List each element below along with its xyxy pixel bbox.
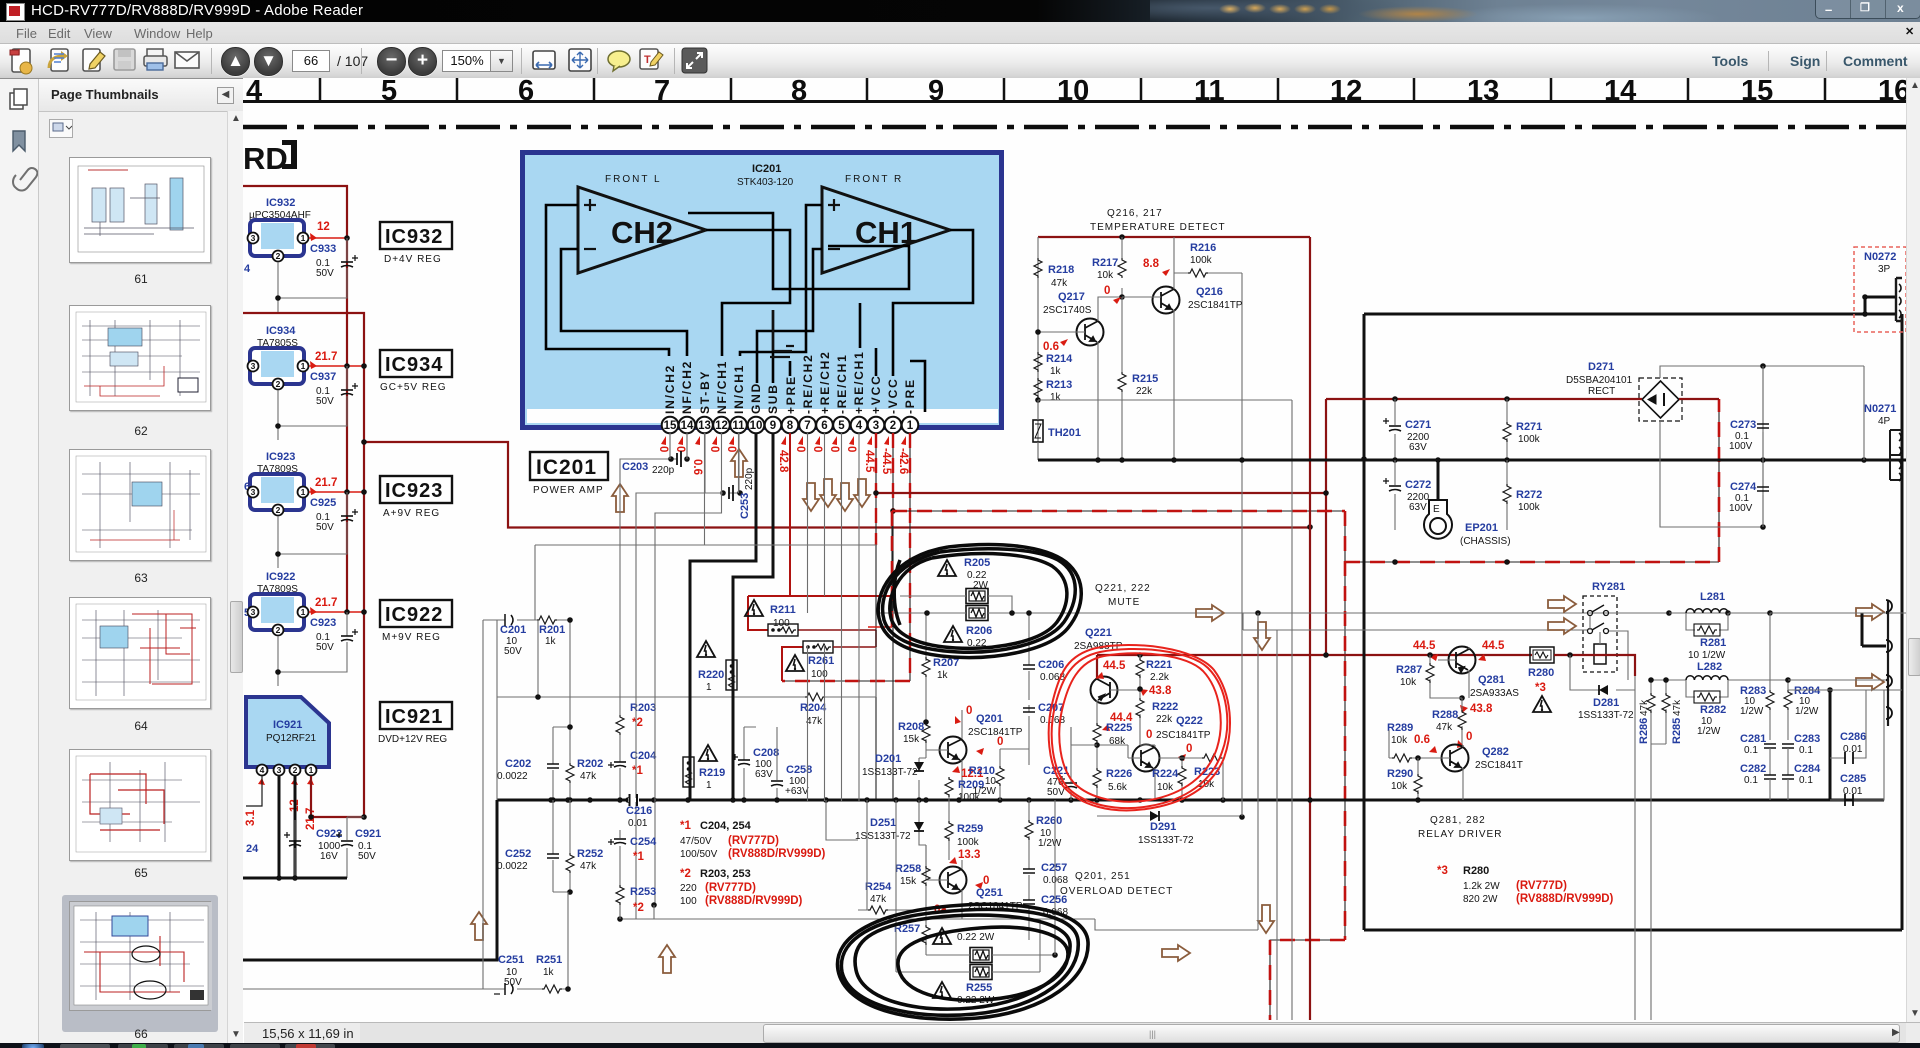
svg-text:0: 0 [983,875,989,887]
svg-text:IC201: IC201 [752,163,781,175]
diode D291 [1097,800,1245,846]
resistor R222 [1136,685,1178,745]
svg-text:0.1: 0.1 [1799,745,1813,756]
svg-text:*1: *1 [632,765,643,777]
capacitor C921 [347,817,364,878]
svg-text:4: 4 [260,765,265,775]
svg-text:16V: 16V [320,851,338,862]
arrow up bottom-left [471,912,487,940]
svg-text:C937: C937 [310,371,336,383]
svg-text:D281: D281 [1593,697,1619,709]
svg-text:47k: 47k [870,894,887,905]
svg-text:R252: R252 [577,848,603,860]
resistor R206 [880,606,1160,650]
svg-text:C252: C252 [505,848,531,860]
svg-text:4P: 4P [1878,416,1891,427]
svg-text:C923: C923 [310,617,336,629]
svg-text:10: 10 [750,420,763,432]
svg-text:*3: *3 [1535,682,1546,694]
board border dash-dot line [243,125,1906,130]
red wire +PRE pin8 [748,433,895,630]
svg-text:Q216, 217: Q216, 217 [1107,208,1163,219]
svg-text:R205: R205 [964,557,990,569]
connector right speaker [1770,600,1892,726]
wire top rail [1119,234,1125,240]
svg-text:IC934: IC934 [385,354,443,376]
svg-text:1: 1 [706,780,712,791]
svg-text:R222: R222 [1152,701,1178,713]
ruler scale band [246,75,1910,107]
capacitor C933 [278,238,347,312]
svg-text:C282: C282 [1740,763,1766,775]
svg-text:0: 0 [794,446,806,452]
svg-text:63V: 63V [1409,502,1427,513]
svg-text:100k: 100k [957,837,980,848]
op-amp CH1 [822,187,950,273]
svg-text:IC921: IC921 [273,719,302,731]
svg-text:C933: C933 [310,243,336,255]
svg-text:-42.6: -42.6 [897,448,909,474]
svg-text:-PRE: -PRE [903,378,917,414]
svg-text:+VCC: +VCC [869,374,883,414]
svg-text:9: 9 [770,420,776,432]
resistor R210 [969,749,1029,800]
svg-text:100V: 100V [1729,503,1753,514]
svg-text:50V: 50V [1047,787,1065,798]
arrow up center [659,945,675,973]
svg-text:6: 6 [821,420,827,432]
svg-text:10k: 10k [1157,782,1174,793]
arrows down pins 7-4 [803,483,819,511]
svg-text:Q201, 251: Q201, 251 [1075,871,1131,882]
svg-text:R285: R285 [1671,718,1683,744]
transistor Q201 [926,705,1023,800]
wire y919 [620,905,1095,919]
svg-text:2: 2 [276,251,281,261]
capacitor C285 [1788,690,1902,806]
red dashed -44.5 rail [892,399,1719,1020]
svg-text:R204: R204 [800,702,827,714]
capacitor C281 [1740,733,1776,775]
svg-text:1: 1 [301,361,306,371]
svg-text:IC922: IC922 [266,571,295,583]
svg-text:N0272: N0272 [1864,251,1896,263]
resistor R221 [1136,655,1172,686]
svg-text:EP201: EP201 [1465,522,1498,534]
svg-text:8.8: 8.8 [1143,258,1160,270]
svg-text:100: 100 [811,669,828,680]
svg-text:10k: 10k [1391,781,1408,792]
svg-text:C201: C201 [500,624,526,636]
svg-text:GC+5V REG: GC+5V REG [380,382,447,393]
resistor R283 [1740,685,1774,740]
svg-text:FRONT L: FRONT L [605,174,662,185]
capacitor C922 [294,820,296,878]
svg-text:*1: *1 [680,820,691,832]
heavy output bus [243,800,1884,960]
svg-text:50V: 50V [358,851,376,862]
svg-text:C204: C204 [630,750,657,762]
svg-text:TH201: TH201 [1048,427,1081,439]
svg-text:R221: R221 [1146,659,1172,671]
svg-text:R260: R260 [1036,815,1062,827]
svg-text:0.6: 0.6 [1414,734,1430,746]
ruler line [243,100,1906,103]
black marker circle upper (R205/R206) [878,545,1081,658]
capacitor C284 [1782,763,1821,800]
svg-text:1k: 1k [545,636,557,647]
resistors R286 R285 [1638,677,1683,744]
resistor R284 [1784,685,1821,740]
svg-text:21.7: 21.7 [315,477,337,489]
IC932 regulator [248,197,359,312]
svg-text:C922: C922 [316,828,342,840]
svg-text:(RV888D/RV999D): (RV888D/RV999D) [728,848,826,860]
svg-text:3: 3 [873,420,879,432]
svg-text:(RV888D/RV999D): (RV888D/RV999D) [1516,893,1614,905]
thin signal verticals from pins to lower area [535,433,877,919]
svg-text:1k: 1k [1050,392,1062,403]
svg-text:-VCC: -VCC [886,377,900,414]
svg-text:Q201: Q201 [976,713,1003,725]
svg-text:820 2W: 820 2W [1463,894,1498,905]
svg-text:0.6: 0.6 [691,459,703,475]
capacitor C256 [1023,894,1068,940]
svg-text:DVD+12V REG: DVD+12V REG [378,734,447,745]
svg-text:D291: D291 [1150,821,1176,833]
capacitor C272 [1383,460,1431,530]
svg-text:3P: 3P [1878,264,1891,275]
svg-text:D+4V REG: D+4V REG [384,254,442,265]
svg-text:8: 8 [787,420,794,432]
svg-text:R224: R224 [1152,768,1179,780]
svg-text:SUB: SUB [766,383,780,414]
svg-text:C286: C286 [1840,731,1866,743]
heavy GND/SUB wires from pins 10,9 [690,433,773,800]
svg-text:E: E [1433,504,1440,515]
svg-text:13.3: 13.3 [958,849,980,861]
svg-text:C272: C272 [1405,479,1431,491]
svg-text:21.7: 21.7 [315,597,337,609]
svg-text:C285: C285 [1840,773,1866,785]
svg-text:R286: R286 [1638,718,1650,744]
svg-text:0.22 2W: 0.22 2W [957,932,995,943]
wire bottom of temp detect [1038,459,1361,462]
svg-text:Q281, 282: Q281, 282 [1430,815,1486,826]
svg-text:100/50V: 100/50V [680,849,718,860]
resistor R225 [1071,722,1132,768]
boxed label IC934 [380,350,452,393]
svg-text:C257: C257 [1041,862,1067,874]
resistor R217 [1118,258,1126,278]
svg-text:2SA933AS: 2SA933AS [1470,688,1519,699]
svg-text:(RV888D/RV999D): (RV888D/RV999D) [705,895,803,907]
svg-text:1/2W: 1/2W [1038,838,1062,849]
svg-text:*1: *1 [633,851,644,863]
svg-text:0: 0 [997,736,1003,748]
svg-text:-44.5: -44.5 [880,448,892,475]
svg-text:1/2W: 1/2W [1697,726,1721,737]
svg-text:NF/CH2: NF/CH2 [680,360,694,414]
svg-text:1k: 1k [1050,366,1062,377]
maroon rail staircase from regulators [364,442,1310,528]
svg-text:C253: C253 [739,493,751,519]
maroon 44.5 rail to relay [1097,654,1532,656]
svg-text:1SS133T-72: 1SS133T-72 [855,831,911,842]
capacitor C925 [278,492,347,568]
svg-text:50V: 50V [316,522,334,533]
svg-text:IC932: IC932 [385,226,443,248]
svg-text:47k: 47k [1051,278,1068,289]
svg-text:R251: R251 [536,954,562,966]
svg-text:220p: 220p [744,467,755,490]
resistor R226 [1093,768,1132,800]
svg-text:0.6: 0.6 [1043,341,1059,353]
svg-text:+PRE: +PRE [784,375,798,414]
wire stubs relay area [1243,613,1590,630]
svg-text:ST-BY: ST-BY [698,370,712,414]
wire mute row [1160,612,1906,614]
svg-text:R218: R218 [1048,264,1074,276]
resistor R290 [1387,758,1422,803]
svg-text:1k: 1k [937,670,949,681]
svg-text:IC921: IC921 [385,706,443,728]
svg-text:2: 2 [276,625,281,635]
svg-text:IN/CH2: IN/CH2 [663,364,677,414]
svg-text:100V: 100V [1729,441,1753,452]
svg-text:12: 12 [715,420,728,432]
svg-text:R271: R271 [1516,421,1542,433]
svg-text:Q251: Q251 [976,887,1003,899]
svg-text:14: 14 [681,420,694,432]
resistor R223 [1159,754,1223,800]
svg-text:R255: R255 [966,982,992,994]
svg-text:-RE/CH2: -RE/CH2 [801,353,815,414]
heavy mid rail [1361,459,1906,462]
svg-text:10k: 10k [1400,677,1417,688]
svg-text:C251: C251 [498,954,524,966]
svg-text:C202: C202 [505,758,531,770]
resistor R288 [1432,698,1466,745]
wire maroon rail IC932 [243,186,347,612]
inductor L282 [1651,661,1770,737]
diode D201 [862,753,926,803]
svg-text:STK403-120: STK403-120 [737,177,794,188]
svg-text:43.8: 43.8 [1470,703,1493,715]
svg-text:C284: C284 [1794,763,1821,775]
transistor Q282 [1433,731,1523,800]
svg-text:RY281: RY281 [1592,581,1625,593]
svg-text:1/2W: 1/2W [1740,706,1764,717]
resistor R224 [1152,755,1186,800]
diode D251 [855,800,926,845]
black marker circle lower (R255/R256) [837,904,1088,1019]
arrow up near pin11 [731,449,747,477]
capacitor C258 [771,727,812,803]
transistor Q221 [1074,627,1140,723]
resistor R272 [1503,460,1542,530]
svg-text:(CHASSIS): (CHASSIS) [1460,536,1511,547]
earth plate EP201 [1424,460,1511,547]
svg-text:(RV777D): (RV777D) [705,882,756,894]
svg-text:R213: R213 [1046,379,1072,391]
rectifier D271 [1326,361,1719,421]
thin verticals right of mute [1242,273,1292,1020]
svg-text:MUTE: MUTE [1108,597,1140,608]
svg-text:1: 1 [907,420,914,432]
svg-text:5.6k: 5.6k [1108,782,1128,793]
svg-text:C216: C216 [626,805,652,817]
svg-text:R217: R217 [1092,257,1118,269]
svg-text:CH2: CH2 [611,215,673,250]
svg-text:4: 4 [244,263,251,275]
svg-text:R281: R281 [1700,637,1726,649]
boxed resistor R256 [926,928,1058,963]
svg-text:Q221: Q221 [1085,627,1112,639]
svg-text:43.8: 43.8 [1149,685,1172,697]
svg-text:10 1/2W: 10 1/2W [1688,650,1726,661]
capacitor C923 [278,612,347,686]
resistor R209 [945,777,984,803]
resistor R257 [894,919,930,947]
wire speaker rows [1243,613,1906,680]
svg-text:RD: RD [243,141,288,176]
diode D281 [1570,655,1651,1020]
svg-text:3.1: 3.1 [245,809,257,826]
svg-text:3: 3 [251,487,256,497]
svg-text:D251: D251 [870,817,896,829]
svg-text:47k: 47k [1672,699,1683,716]
svg-text:R211: R211 [770,604,796,616]
svg-text:100k: 100k [1190,255,1213,266]
svg-text:2: 2 [293,765,298,775]
svg-text:(RV777D): (RV777D) [728,835,779,847]
svg-text:L282: L282 [1697,661,1722,673]
svg-text:*2: *2 [680,868,691,880]
svg-text:0: 0 [828,446,840,452]
connector N0272 [1854,247,1906,332]
svg-text:RECT: RECT [1588,386,1615,397]
svg-text:IC922: IC922 [385,604,443,626]
capacitor C202 / resistor R202 [497,724,603,803]
svg-text:12: 12 [317,221,330,233]
svg-text:0: 0 [657,446,669,452]
svg-text:Q217: Q217 [1058,291,1085,303]
svg-text:22k: 22k [1136,386,1153,397]
svg-text:D271: D271 [1588,361,1614,373]
svg-text:C208: C208 [753,747,779,759]
capacitor C252 / resistor R252 [497,800,603,895]
svg-text:0.1: 0.1 [1744,775,1758,786]
svg-text:C254: C254 [630,836,657,848]
svg-text:100k: 100k [1518,502,1541,513]
capacitor C203 [620,433,690,477]
svg-text:R261: R261 [808,655,834,667]
resistor R254 [858,881,900,914]
svg-text:0.0022: 0.0022 [497,861,528,872]
svg-text:220: 220 [680,883,697,894]
svg-text:0: 0 [811,446,823,452]
svg-text:22k: 22k [1156,714,1173,725]
heavy frame wire right block [1364,297,1902,930]
svg-text:+RE/CH1: +RE/CH1 [852,350,866,414]
svg-text:C281: C281 [1740,733,1766,745]
svg-text:R203: R203 [630,702,656,714]
IC934 regulator [248,325,367,440]
maroon temp-detect rail [1038,237,1310,1020]
arrow up left [612,484,628,512]
svg-text:R215: R215 [1132,373,1158,385]
svg-text:2SC1841TP: 2SC1841TP [968,727,1023,738]
svg-text:4: 4 [856,420,863,432]
svg-text:C925: C925 [310,497,336,509]
svg-text:R216: R216 [1190,242,1216,254]
svg-text:1: 1 [309,765,314,775]
svg-text:+RE/CH2: +RE/CH2 [818,350,832,414]
resistor R260 [1025,800,1062,865]
svg-text:44.5: 44.5 [1482,640,1505,652]
svg-text:21.7: 21.7 [315,351,337,363]
svg-text:10k: 10k [1097,270,1114,281]
svg-text:C258: C258 [786,764,812,776]
svg-text:47k: 47k [806,716,823,727]
svg-text:5: 5 [838,420,845,432]
capacitor C282 [1740,763,1776,800]
svg-text:1: 1 [706,682,712,693]
svg-text:M+9V REG: M+9V REG [382,632,441,643]
boxed label IC201 [530,452,608,496]
svg-text:1/2W: 1/2W [973,786,997,797]
connector N0271 [1864,403,1902,481]
capacitor C251 / resistor R251 [483,892,571,995]
svg-text:C274: C274 [1730,481,1757,493]
svg-text:1: 1 [301,607,306,617]
capacitor C937 [278,366,347,440]
svg-text:R258: R258 [895,863,921,875]
svg-text:*2: *2 [633,902,644,914]
svg-text:R225: R225 [1106,722,1132,734]
resistor R218 [1034,258,1042,278]
svg-text:50V: 50V [316,642,334,653]
capacitor C221 [1043,727,1077,800]
svg-text:R253: R253 [630,886,656,898]
svg-text:63V: 63V [755,769,773,780]
svg-text:R220: R220 [698,669,724,681]
svg-text:10k: 10k [1391,735,1408,746]
svg-text:0: 0 [674,446,686,452]
resistor R258 [895,845,930,919]
svg-text:3: 3 [251,233,256,243]
capacitor C201 / resistor R201 [483,614,573,727]
transistor Q281 [1413,640,1519,715]
svg-text:0.01: 0.01 [628,818,648,829]
svg-text:R201: R201 [539,624,565,636]
svg-text:11: 11 [732,420,745,432]
svg-text:42.8: 42.8 [777,450,789,473]
svg-text:2W: 2W [973,580,989,591]
resistor R211 [745,600,798,636]
arrow down right of mute [1254,622,1270,650]
svg-text:R254: R254 [865,881,892,893]
svg-text:15k: 15k [900,876,917,887]
resistor R259 [945,800,983,864]
svg-text:-RE/CH1: -RE/CH1 [835,353,849,414]
svg-text:C921: C921 [355,828,381,840]
svg-text:100: 100 [680,896,697,907]
capacitor C204 [608,750,657,803]
svg-text:68k: 68k [1109,736,1126,747]
svg-text:*3: *3 [1437,865,1448,877]
